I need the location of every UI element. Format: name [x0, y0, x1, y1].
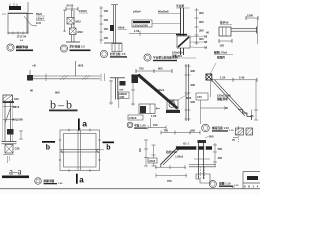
svg-text:栏杆连接 1:5: 栏杆连接 1:5: [70, 45, 86, 49]
svg-text:100: 100: [153, 123, 158, 127]
title a-a: [2, 167, 29, 179]
svg-text:拉杆Φ16: 拉杆Φ16: [166, 150, 177, 154]
svg-text:250: 250: [218, 147, 223, 151]
svg-text:700: 700: [167, 179, 172, 183]
svg-text:M12: M12: [76, 20, 82, 24]
svg-text:1:10: 1:10: [229, 130, 234, 132]
svg-text:500: 500: [209, 135, 214, 139]
svg-text:4Φ12: 4Φ12: [13, 105, 20, 109]
svg-text:50x5: 50x5: [36, 12, 42, 16]
svg-text:Φ25: Φ25: [78, 64, 84, 68]
svg-text:8 8 1 4: 8 8 1 4: [244, 185, 259, 189]
detail 6 long rail elevation: [27, 61, 129, 108]
small plan detail right: [232, 126, 253, 142]
svg-text:梯段连接 1:10: 梯段连接 1:10: [212, 126, 229, 130]
svg-text:40: 40: [206, 31, 209, 35]
svg-text:Φ8@200: Φ8@200: [12, 118, 23, 122]
svg-text:x200: x200: [119, 97, 125, 99]
plan square: [60, 130, 100, 171]
svg-text:XL-1: XL-1: [183, 142, 189, 146]
svg-text:60x60x6: 60x60x6: [158, 10, 169, 14]
svg-text:L50x5: L50x5: [79, 9, 87, 13]
svg-text:1.50: 1.50: [134, 29, 140, 33]
bottom-center label circle: [209, 180, 239, 188]
svg-text:1:20: 1:20: [58, 183, 63, 185]
title block: [243, 172, 260, 190]
svg-text:δ8: δ8: [204, 46, 208, 50]
svg-text:a–a: a–a: [9, 167, 22, 177]
detail G1 right annotation stack: [36, 12, 45, 25]
detail H2 label circle: [60, 45, 90, 53]
detail stair A: [128, 67, 192, 130]
detail stair B: [196, 51, 258, 125]
svg-text:δ8: δ8: [204, 40, 208, 44]
svg-text:梯梁L75x6: 梯梁L75x6: [214, 51, 228, 55]
svg-text:150: 150: [104, 18, 109, 22]
svg-text:300: 300: [199, 20, 204, 24]
svg-text:150x150x8: 150x150x8: [217, 94, 231, 98]
svg-text:JD-1 1:10: JD-1 1:10: [16, 45, 28, 49]
svg-text:a: a: [82, 119, 87, 129]
svg-text:平台梁: 平台梁: [176, 4, 184, 8]
svg-text:预埋件: 预埋件: [217, 56, 225, 60]
detail stair B label circle: [202, 124, 234, 132]
middle column between stairs: [185, 64, 196, 121]
svg-text:35: 35: [251, 114, 254, 118]
svg-text:L50x4: L50x4: [36, 17, 44, 21]
svg-text:900: 900: [191, 83, 196, 87]
svg-text:b: b: [106, 144, 110, 151]
svg-text:2x40x4: 2x40x4: [155, 88, 164, 92]
detail J3 post (third top): [100, 5, 128, 52]
svg-text:▯40x4: ▯40x4: [133, 10, 141, 14]
section mark b left: [42, 141, 55, 152]
title b-b: [49, 98, 78, 112]
svg-text:300: 300: [199, 11, 204, 15]
svg-text:δ=8: δ=8: [36, 21, 41, 25]
svg-text:C20: C20: [15, 147, 20, 151]
detail 11 column with gusset: [129, 4, 208, 58]
svg-text:钢板预埋: 钢板预埋: [217, 97, 228, 101]
detail 11 label circle: [144, 54, 179, 61]
label near plan top-right: [127, 115, 147, 129]
svg-text:160x160: 160x160: [172, 51, 183, 55]
svg-text:900: 900: [191, 100, 196, 104]
detail canopy section (bottom-center): [139, 129, 222, 184]
svg-text:900: 900: [191, 69, 196, 73]
detail G1 label circle: [7, 44, 33, 51]
svg-text:M12: M12: [78, 30, 84, 34]
svg-text:栏杆立柱 1:5: 栏杆立柱 1:5: [110, 52, 126, 56]
svg-text:M16: M16: [186, 96, 192, 100]
svg-text:平台梁与柱连接 1:10: 平台梁与柱连接 1:10: [153, 56, 178, 60]
svg-text:900: 900: [158, 67, 163, 71]
section mark a top: [78, 119, 87, 131]
detail b-b column section (left): [2, 95, 24, 163]
svg-text:150: 150: [104, 9, 109, 13]
svg-text:扶手50: 扶手50: [220, 21, 229, 25]
svg-text:L50x5: L50x5: [129, 116, 137, 120]
detail J3 label circle: [100, 50, 127, 57]
svg-text:L50x5: L50x5: [149, 161, 156, 163]
svg-text:δ10: δ10: [14, 97, 19, 101]
detail G1 beam section (top-left): [2, 2, 37, 42]
svg-text:150: 150: [104, 36, 109, 40]
svg-text:1500: 1500: [247, 14, 253, 18]
svg-text:雨棚详图: 雨棚详图: [44, 179, 55, 183]
svg-text:-60x6: -60x6: [118, 26, 125, 30]
section mark b right: [103, 142, 115, 152]
svg-text:1717.04: 1717.04: [17, 35, 27, 39]
svg-text:δ8: δ8: [204, 35, 208, 39]
svg-text:1.50: 1.50: [151, 114, 157, 118]
detail H2 column (second top): [63, 4, 88, 43]
svg-text:750: 750: [139, 67, 144, 71]
svg-text:L50x5@500: L50x5@500: [133, 24, 148, 28]
svg-text:b: b: [46, 145, 50, 152]
svg-text:2.40: 2.40: [239, 75, 245, 79]
svg-text:900: 900: [55, 91, 60, 95]
svg-text:750: 750: [164, 129, 169, 133]
svg-text:90: 90: [30, 89, 33, 93]
sheet bottom frame line: [0, 188, 260, 189]
svg-text:50 50: 50 50: [67, 4, 74, 8]
svg-text:120: 120: [220, 44, 225, 48]
svg-text:250: 250: [191, 129, 196, 133]
svg-text:1:10: 1:10: [234, 185, 239, 187]
svg-text:a: a: [79, 176, 84, 185]
svg-text:雨棚 1:10: 雨棚 1:10: [219, 182, 231, 186]
left bottom label circle: [35, 178, 63, 185]
detail 5 beam top-right: [206, 14, 258, 48]
svg-text:平面 1:20: 平面 1:20: [134, 124, 146, 128]
svg-text:L50: L50: [197, 95, 202, 99]
svg-text:150: 150: [104, 27, 109, 31]
svg-text:300: 300: [199, 29, 204, 33]
svg-text:1.24: 1.24: [220, 75, 226, 79]
svg-text:L50x5: L50x5: [176, 155, 184, 159]
svg-text:70: 70: [232, 138, 235, 142]
section mark a bottom: [76, 174, 84, 185]
svg-text:b–b: b–b: [50, 98, 74, 112]
svg-text:400: 400: [218, 156, 223, 160]
